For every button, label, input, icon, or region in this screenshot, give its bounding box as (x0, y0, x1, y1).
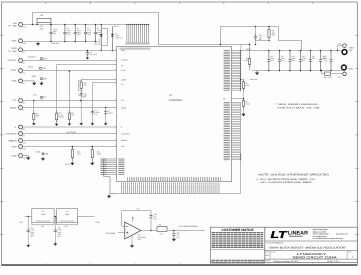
svg-text:GND: GND (32, 75, 37, 78)
svg-text:RUN: RUN (121, 145, 125, 148)
svg-text:E3: E3 (22, 72, 24, 75)
capacitor C3 (84, 25, 87, 42)
resistor R8 (33, 100, 35, 102)
wire VIN rail (22, 24, 148, 26)
svg-text:1: 1 (115, 78, 116, 81)
wire CLKOUT (22, 60, 116, 62)
terminal E2 CLKOUT (8, 59, 25, 65)
svg-text:VIN: VIN (137, 207, 141, 210)
svg-text:E8: E8 (22, 128, 24, 131)
pin names VIN row inside IC (120, 48, 150, 50)
svg-text:RNMON: RNMON (121, 139, 128, 142)
capacitor C19 (80, 100, 82, 102)
capacitor C8 (267, 51, 270, 71)
svg-text:CTL: CTL (121, 99, 124, 102)
terminal E15 GND (12, 39, 26, 45)
wire GND rail top (22, 41, 97, 43)
svg-text:R10: R10 (324, 76, 327, 79)
capacitor (254, 34, 257, 41)
capacitor C14 (27, 216, 29, 218)
svg-text:4mm DIA.: 4mm DIA. (52, 42, 60, 45)
svg-text:E14: E14 (22, 26, 25, 29)
svg-text:VIN: VIN (13, 22, 17, 25)
svg-text:VOUT: VOUT (114, 25, 120, 28)
svg-text:OPT: OPT (160, 233, 163, 236)
capacitor C11 (299, 51, 302, 71)
svg-text:ALL CAPACITORS ARE 0603.: ALL CAPACITORS ARE 0603. (261, 181, 314, 184)
wire GND rail right (252, 70, 342, 72)
svg-text:523kHz: 523kHz (58, 115, 64, 118)
ground TP6 (39, 81, 43, 85)
svg-text:1. ALL RESISTORS ARE 0603, 1%: 1. ALL RESISTORS ARE 0603, 1%. (256, 178, 316, 181)
capacitor C2 (74, 25, 77, 42)
svg-text:SIZE: SIZE (266, 251, 269, 254)
terminal E3 SYNC (10, 69, 24, 75)
svg-text:NOTE: UNLESS OTHERWISE SPECIFI: NOTE: UNLESS OTHERWISE SPECIFIED (258, 173, 329, 176)
wire to op-amp +in (118, 232, 125, 234)
wire FB to divider (249, 45, 251, 57)
svg-text:VOUTMON BUFFERED: VOUTMON BUFFERED (179, 225, 199, 228)
ground R11 (90, 161, 94, 165)
svg-text:7V - 58V: 7V - 58V (8, 50, 17, 53)
IC bottom pin names row (128, 177, 221, 181)
svg-text:C14: C14 (30, 226, 33, 229)
svg-text:TP5: TP5 (42, 67, 47, 70)
resistor R6 (37, 18, 51, 22)
ground C4 (91, 122, 95, 126)
wire C13-R9 bottom (256, 40, 270, 42)
svg-text:C19: C19 (78, 93, 81, 96)
capacitor C4 plates (91, 110, 94, 115)
wire GND bus bottom (116, 193, 241, 195)
svg-text:1.05k: 1.05k (245, 102, 249, 105)
wire MODE (22, 107, 116, 109)
terminal E14 VIN (8, 22, 26, 29)
svg-text:1: 1 (115, 125, 116, 128)
ground R4 (55, 122, 59, 126)
test point TP7 (41, 96, 48, 99)
svg-text:L1: L1 (42, 210, 44, 213)
capacitor (54, 229, 57, 233)
terminal E6 CTL (12, 99, 24, 105)
IC left-bottom GND pin ladder (104, 158, 117, 160)
svg-text:U1: U1 (169, 94, 173, 97)
svg-text:REV.: REV. (348, 251, 352, 254)
resistor (68, 111, 70, 123)
svg-text:FOR IOUT MAX. VS. VIN: FOR IOUT MAX. VS. VIN (278, 106, 321, 109)
IC U1 LTM8056EY body (117, 47, 232, 182)
terminal VOUT turret (342, 50, 347, 55)
resistor R12 RUN divider (72, 146, 74, 148)
svg-text:SYNC: SYNC (121, 69, 126, 72)
svg-text:OPT: OPT (71, 114, 74, 117)
capacitor C9 (278, 51, 281, 71)
wire ladder bus (103, 159, 105, 177)
resistor R13 OPT (parallel D1) (101, 28, 107, 45)
junction D2-SVIN (112, 50, 114, 52)
svg-text:E10: E10 (22, 142, 25, 145)
svg-text:4mm DIA.: 4mm DIA. (250, 78, 258, 81)
svg-text:E9: E9 (22, 135, 24, 138)
svg-text:OPT: OPT (272, 34, 275, 37)
ground R7 (68, 122, 72, 126)
svg-text:C15: C15 (58, 226, 61, 229)
svg-text:TP7: TP7 (43, 96, 48, 99)
svg-text:D2: D2 (116, 32, 118, 35)
wire GND E4 (22, 80, 34, 82)
wire VOUT to terminal (341, 51, 343, 52)
ground R8 (32, 122, 36, 126)
capacitor C4 (94, 25, 97, 42)
svg-text:GND: GND (12, 40, 17, 43)
svg-text:TP9: TP9 (45, 153, 50, 156)
svg-text:OPT: OPT (65, 225, 68, 228)
wire GND E16 (22, 155, 28, 157)
svg-text:MODE: MODE (10, 106, 17, 109)
junction D1-SVIN (100, 50, 102, 52)
svg-text:CTL: CTL (33, 94, 37, 97)
svg-text:C3: C3 (90, 51, 92, 54)
wire VOUTMON (22, 133, 116, 135)
svg-text:C16: C16 (154, 213, 157, 216)
resistor (91, 147, 93, 161)
svg-text:E4: E4 (22, 82, 24, 85)
svg-text:CLKOUT: CLKOUT (28, 55, 37, 58)
svg-text:1: 1 (115, 105, 116, 108)
diode D2 (111, 30, 114, 51)
svg-text:86.6k: 86.6k (97, 153, 101, 156)
capacitor (172, 232, 175, 237)
svg-text:FB1: FB1 (159, 224, 162, 227)
svg-text:1206: 1206 (77, 33, 81, 36)
ferrite FB1 (157, 227, 167, 232)
svg-text:CUSTOMER NOTICE: CUSTOMER NOTICE (222, 228, 255, 232)
ground E4 (32, 81, 36, 85)
svg-text:316k: 316k (244, 59, 248, 62)
svg-text:1: 1 (352, 255, 354, 258)
svg-text:OPT: OPT (94, 53, 97, 56)
wire RNMON (22, 140, 116, 142)
svg-text:TECHNOLOGY: TECHNOLOGY (289, 235, 304, 238)
title block: customer notice box (210, 227, 264, 263)
svg-text:SYNC: SYNC (28, 65, 34, 68)
svg-text:E16: E16 (22, 157, 25, 160)
wire op-amp gnd (131, 235, 133, 244)
svg-text:1: 1 (115, 58, 116, 61)
wire filter rail (25, 216, 95, 218)
svg-text:DEMO CIRCUIT 2154A: DEMO CIRCUIT 2154A (293, 256, 338, 260)
svg-text:COMP: COMP (121, 79, 127, 82)
resistor (80, 80, 82, 92)
capacitor C6 (309, 51, 312, 71)
svg-text:100k: 100k (245, 84, 249, 87)
terminal E8 IL (15, 125, 25, 131)
svg-text:VOUTMON: VOUTMON (5, 133, 17, 136)
svg-text:TP6: TP6 (43, 78, 48, 81)
op-amp U2 (125, 222, 141, 239)
wire VOUT pin bus (240, 51, 242, 91)
svg-text:CORM4040NP-100NC: CORM4040NP-100NC (35, 219, 51, 222)
ground op-amp (130, 244, 134, 248)
ground VOUT rail (255, 71, 259, 75)
svg-text:SVIN: SVIN (11, 47, 17, 50)
svg-text:LTM8056EY: LTM8056EY (169, 99, 183, 102)
wire COMP (81, 79, 116, 81)
svg-text:R6: R6 (41, 14, 44, 17)
svg-text:TP4: TP4 (43, 58, 48, 61)
capacitor C16 plates (149, 214, 152, 219)
svg-text:VOUTMON: VOUTMON (121, 133, 130, 136)
wire RUN (22, 146, 116, 148)
resistor R5 (241, 78, 244, 80)
resistor R10 (325, 72, 331, 75)
capacitor C1A (49, 25, 52, 42)
terminal E4 GND (12, 79, 25, 85)
svg-text:E11: E11 (22, 148, 25, 151)
wire CTL (22, 100, 116, 102)
ground TP9 (41, 157, 45, 161)
svg-text:SYNC: SYNC (10, 69, 16, 72)
ground C15f (53, 242, 57, 246)
svg-text:VOUTMON: VOUTMON (66, 131, 76, 134)
IC bottom pin number row (122, 182, 220, 184)
terminal E1 SVIN (8, 47, 25, 54)
svg-text:E6: E6 (22, 102, 24, 105)
svg-text:FB: FB (223, 98, 226, 101)
wire FB stub (232, 98, 244, 100)
resistor (71, 147, 73, 161)
svg-text:D1: D1 (98, 39, 100, 42)
jumper bypass L2 (57, 217, 78, 225)
test point TP9 (42, 153, 49, 156)
wire opamp supply (132, 218, 134, 222)
svg-text:GND: GND (349, 67, 354, 70)
svg-text:7V - 58V: 7V - 58V (8, 25, 17, 28)
capacitor C3 plates (86, 51, 89, 57)
terminal E16 GND (12, 154, 26, 160)
svg-text:IC NO.: IC NO. (271, 251, 276, 254)
svg-text:25V: 25V (324, 59, 328, 62)
title block: LT section frame (265, 227, 358, 262)
svg-text:58VIN BUCK-BOOST uMODULE REGUL: 58VIN BUCK-BOOST uMODULE REGULATOR (269, 246, 346, 249)
ground R2 (241, 112, 245, 116)
IC bottom pin stubs (121, 185, 123, 194)
resistor (248, 56, 250, 67)
svg-text:VOUT: VOUT (349, 46, 356, 49)
svg-text:OPT: OPT (36, 115, 39, 118)
ground C15 (79, 122, 83, 126)
svg-text:10uH: 10uH (41, 213, 46, 216)
svg-text:CLKOUT: CLKOUT (8, 59, 18, 62)
svg-text:E10: E10 (338, 42, 341, 45)
svg-text:OPT: OPT (41, 225, 44, 228)
svg-text:0.01uF: 0.01uF (108, 111, 113, 114)
wire VOUT rail (241, 50, 342, 52)
capacitor C18 (173, 230, 175, 232)
svg-text:CLKOUT: CLKOUT (121, 59, 128, 62)
svg-text:GND: GND (36, 150, 41, 153)
svg-text:L2: L2 (66, 210, 68, 213)
capacitor C13 (255, 27, 257, 35)
capacitor C17 (330, 50, 332, 52)
capacitor C17 (329, 51, 332, 71)
svg-text:RNMON: RNMON (8, 139, 17, 142)
ground C14 (26, 244, 30, 248)
IC right upper pin ladder VOUT pins (232, 50, 241, 52)
capacitor C7 plates (104, 110, 107, 115)
capacitor C7 (105, 107, 107, 109)
terminal GND turret (342, 65, 347, 70)
resistor (33, 111, 35, 122)
svg-text:SS: SS (121, 83, 124, 86)
svg-text:IL: IL (121, 126, 122, 129)
svg-text:E1: E1 (22, 51, 24, 54)
svg-text:UVLO: UVLO (65, 163, 70, 166)
svg-text:MODE: MODE (121, 106, 127, 109)
svg-text:www.linear.com: www.linear.com (336, 233, 348, 236)
svg-text:OPT: OPT (138, 238, 141, 241)
svg-text:1: 1 (115, 64, 116, 67)
svg-text:TITLE: SCHEMATIC: TITLE: SCHEMATIC (266, 242, 284, 245)
svg-text:SHEET 1 OF 1: SHEET 1 OF 1 (327, 260, 340, 263)
svg-text:GND: GND (12, 80, 17, 83)
svg-text:CORM4040NP-100NC: CORM4040NP-100NC (59, 219, 75, 222)
svg-text:* SEE DEMO MANUAL: * SEE DEMO MANUAL (276, 103, 320, 106)
test point TP6 (41, 78, 48, 81)
svg-text:2010: 2010 (40, 27, 44, 30)
svg-text:VOUTMON: VOUTMON (106, 232, 116, 235)
pin numbers top bank (126, 42, 149, 44)
customer notice small text (212, 233, 264, 248)
svg-text:1: 1 (115, 132, 116, 135)
svg-text:10uH: 10uH (65, 213, 70, 216)
wire to buffered out (167, 230, 205, 232)
wire down to GND bus (109, 177, 111, 194)
capacitor (27, 229, 30, 233)
ground R12 (70, 161, 74, 165)
terminal E11 RUN (12, 145, 26, 151)
IC top pin bank VIN pins (126, 25, 128, 43)
inductor L1 (32, 209, 54, 223)
wire IL (22, 126, 116, 128)
resistor (56, 111, 58, 123)
terminal E10 sense (343, 44, 347, 48)
wire SVIN rail (22, 50, 116, 52)
wire RT (57, 65, 117, 111)
svg-text:GND: GND (12, 154, 17, 157)
svg-text:N/A: N/A (266, 254, 270, 257)
svg-text:332k: 332k (77, 153, 81, 156)
capacitor C15 plates (80, 91, 83, 98)
svg-text:RUN: RUN (12, 146, 17, 149)
customer notice bottom text (211, 260, 264, 262)
svg-text:CTL: CTL (12, 99, 17, 102)
terminal E9 VOUTMON (5, 132, 24, 138)
capacitor C1 (63, 25, 66, 42)
wire op-amp out (141, 230, 157, 232)
ground C7 (104, 122, 108, 126)
terminal E12 sense (343, 72, 347, 76)
diode D1 (100, 25, 103, 51)
resistor (268, 27, 270, 41)
junction FB (249, 44, 251, 46)
svg-text:VIN: VIN (19, 221, 23, 224)
svg-text:C18: C18 (177, 231, 180, 234)
ground C3 (86, 56, 89, 59)
ground GND bus (107, 194, 111, 198)
wire SS (92, 83, 116, 110)
terminal E10 RNMON (8, 139, 25, 145)
capacitor C7 (319, 51, 322, 71)
svg-text:E2: E2 (22, 62, 24, 65)
test point TP5 (40, 67, 47, 70)
svg-text:IL: IL (15, 126, 18, 129)
svg-text:OPT: OPT (312, 57, 315, 60)
svg-text:1206: 1206 (67, 33, 71, 36)
junction SYNC tap (69, 70, 71, 72)
resistor R11 RUN divider (92, 146, 94, 148)
test point TP4 (41, 58, 48, 61)
resistor (242, 99, 244, 109)
wire lower pin bus to GND rail (240, 102, 242, 193)
terminal E7 MODE (10, 106, 25, 112)
resistor (242, 79, 244, 91)
capacitor C10 (288, 51, 291, 71)
IC right lower pin ladder (232, 101, 241, 103)
svg-text:C15: C15 (84, 92, 87, 95)
svg-text:1630 McCarthy Blvd.: 1630 McCarthy Blvd. (313, 228, 329, 231)
wire op-amp feedback loop (122, 211, 151, 227)
jumper bypass L1 (32, 217, 54, 225)
svg-text:Thursday, November 06, 2013: Thursday, November 06, 2013 (273, 260, 298, 263)
size/ic cells (269, 251, 271, 260)
capacitor C3 SVIN decoupling (87, 50, 89, 52)
svg-text:LT: LT (271, 230, 288, 241)
svg-text:R15: R15 (84, 82, 87, 85)
ground C18 (172, 237, 176, 241)
ground GND rail (36, 42, 40, 46)
capacitor C15f (55, 216, 57, 218)
wire FB comp loop (221, 27, 302, 51)
svg-text:E7: E7 (22, 109, 24, 112)
wire top loop (33, 13, 250, 45)
svg-text:OPT: OPT (329, 76, 332, 79)
svg-text:E15: E15 (22, 42, 25, 45)
customer notice divider (210, 248, 264, 250)
inductor L2 (57, 209, 78, 223)
ground E16 (26, 156, 30, 160)
svg-text:1206: 1206 (87, 33, 91, 36)
wire SYNC (22, 70, 116, 72)
svg-text:LISN: LISN (96, 221, 101, 224)
svg-text:24V: 24V (349, 49, 353, 52)
svg-text:E12: E12 (338, 76, 341, 79)
svg-text:RT: RT (121, 65, 123, 68)
